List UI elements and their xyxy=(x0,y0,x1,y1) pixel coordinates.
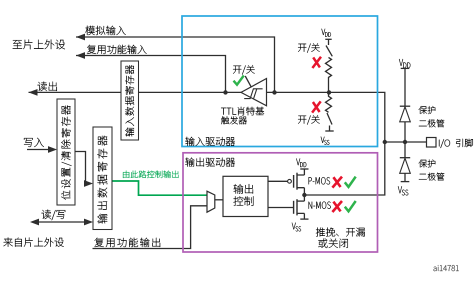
transistor Q2 N-MOS xyxy=(268,207,294,209)
label: on/off 开/关 (pull-down) xyxy=(298,115,320,125)
wire: green control path from output data register to mux xyxy=(112,181,207,195)
label: to on-chip peripherals 至片上外设 xyxy=(13,40,65,50)
node: output junction xyxy=(302,193,306,197)
label: analog input 模拟输入 xyxy=(86,26,126,35)
mux: output source select xyxy=(207,191,215,212)
label: 触发器 xyxy=(221,116,247,124)
wire: alternate function output line into mux xyxy=(93,206,208,249)
input driver box 输入驱动器 xyxy=(182,16,378,147)
check mark: N-MOS state xyxy=(345,201,356,211)
power VDD (P-MOS rail) xyxy=(296,159,300,166)
wire: main input net (read-out line to I/O pin column) xyxy=(29,92,385,195)
node: junction AF-input / main net xyxy=(223,90,227,94)
wire: write arrow into bit set/reset register xyxy=(27,149,50,151)
label: or off 或关闭 xyxy=(318,239,348,249)
label: input driver 输入驱动器 xyxy=(185,137,235,146)
label: green note 由此路控制输出 xyxy=(123,171,178,178)
wire: bit set/reset register to output data register xyxy=(75,152,86,184)
transistor Q1 P-MOS xyxy=(268,180,288,182)
power VDD (protection) xyxy=(399,59,403,66)
wire: alternate function input line (Schmitt output to peripherals) xyxy=(76,56,226,93)
ground VSS (N-MOS rail) xyxy=(300,218,308,220)
wire: pin net to I/O pad xyxy=(385,141,427,143)
protection diode D2 (to VSS) xyxy=(404,142,406,158)
label: protection diode upper 保护/二极管 xyxy=(419,106,436,114)
red X: N-MOS state xyxy=(332,201,342,212)
label: TTL肖特基 xyxy=(221,107,264,116)
node: junction analog / main net xyxy=(272,90,276,94)
label: protection diode lower 保护/二极管 xyxy=(419,160,436,168)
label: read/write 读/写 xyxy=(42,210,66,221)
I/O pin pad xyxy=(427,138,437,148)
switch: pull-down on/off xyxy=(327,113,332,125)
red X: P-MOS state xyxy=(332,177,342,188)
output driver box 输出驱动器 xyxy=(183,153,378,252)
red X: pull-up disabled xyxy=(312,57,321,68)
register: bit set/reset register 位设置/清除寄存器 xyxy=(57,99,75,205)
label: alternate function input 复用功能输入 xyxy=(87,45,147,54)
wire: P-MOS/N-MOS drain to pin column xyxy=(303,195,305,201)
label: alternate function output 复用功能输出 xyxy=(94,238,160,247)
node: pull network / main net xyxy=(327,90,331,94)
label: on/off 开/关 (Schmitt) xyxy=(233,65,255,75)
label: figure id ai14781 xyxy=(434,265,459,271)
label: output driver 输出驱动器 xyxy=(185,158,235,167)
node: pin column junction xyxy=(383,140,387,144)
label: P-MOS xyxy=(309,177,330,184)
label: write 写入 xyxy=(24,138,44,147)
label: I/O pin I/O引脚 xyxy=(439,139,473,148)
switch: Schmitt trigger enable lever xyxy=(245,76,251,87)
label: read out 读出 xyxy=(38,82,57,92)
node: protection diode junction xyxy=(403,140,407,144)
wire: read/write double arrow xyxy=(35,221,87,223)
red X: pull-down disabled xyxy=(312,101,321,112)
wire: analog input line (pin node to on-chip peripherals) xyxy=(76,37,275,92)
register: output data register 输出数据寄存器 xyxy=(93,127,112,230)
label: on/off 开/关 (pull-up) xyxy=(298,43,320,53)
register: input data register 输入数据寄存器 xyxy=(121,61,139,140)
wire: mux output to output control xyxy=(215,199,223,201)
ground VSS (pull-down rail) xyxy=(325,130,333,132)
check mark: P-MOS state xyxy=(345,177,356,187)
resistor: pull-down xyxy=(326,92,332,112)
switch: pull-up on/off xyxy=(328,39,330,45)
label: push-pull/open-drain 推挽、开漏 xyxy=(316,228,365,237)
label: N-MOS xyxy=(309,202,331,209)
power VDD (pull-up rail) xyxy=(322,29,326,35)
ground VSS (protection) xyxy=(401,181,410,183)
op-amp/buffer: TTL Schmitt trigger xyxy=(241,79,267,106)
resistor: pull-up xyxy=(326,57,332,92)
protection diode D1 (to VDD) xyxy=(404,68,406,106)
label: from on-chip peripherals 来自片上外设 xyxy=(4,238,64,247)
block: output control 输出控制 xyxy=(223,176,268,216)
check mark: Schmitt trigger enabled xyxy=(234,76,244,85)
